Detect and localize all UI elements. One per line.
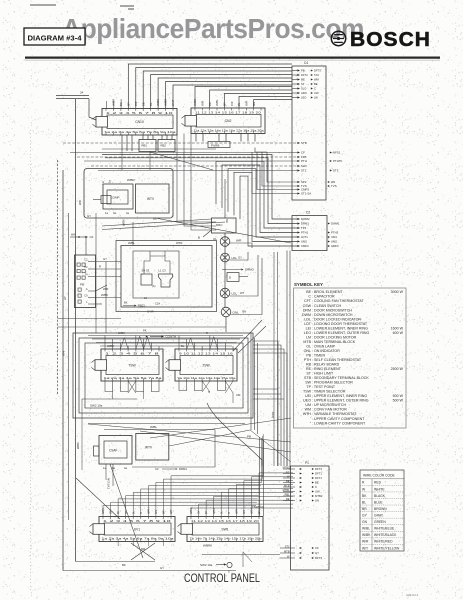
svg-text:WHITE/BLUE: WHITE/BLUE	[374, 527, 395, 531]
svg-text:CF: CF	[90, 235, 94, 239]
wire C4 lower feed 4	[252, 152, 297, 194]
svg-text:2500 W: 2500 W	[391, 367, 404, 371]
svg-text:: TEST POINT: : TEST POINT	[312, 385, 336, 389]
wire bus CN2 pin riser 3	[224, 94, 292, 109]
svg-text:W/Y: W/Y	[362, 546, 369, 550]
svg-text:GN: GN	[242, 310, 246, 314]
wire left frame vertical D	[68, 213, 70, 520]
wire TSW1 riser 5	[135, 336, 137, 350]
svg-text:600 W: 600 W	[393, 331, 404, 335]
wire diagonal D4b	[140, 431, 291, 452]
relay WTV box	[136, 184, 170, 213]
svg-text:: HIGH LIMIT: : HIGH LIMIT	[312, 372, 334, 376]
svg-text:W/BL: W/BL	[362, 527, 370, 531]
svg-text:TVS: TVS	[331, 184, 337, 188]
svg-text:11a 12a 13a 14a 15a 16a 17a 18: 11a 12a 13a 14a 15a 16a 17a 18a 19a 20a	[194, 129, 265, 133]
wire C4 feed row 3	[77, 156, 297, 158]
svg-text:CONTROL PANEL: CONTROL PANEL	[184, 573, 260, 585]
svg-text:BR: BR	[362, 507, 367, 511]
wire TSW1 riser 1	[104, 336, 106, 350]
wire diagonal TSW2 corner 2	[238, 326, 266, 353]
wire PB out WBK	[96, 297, 122, 299]
svg-text:UM: UM	[305, 403, 311, 407]
svg-text:DRM1: DRM1	[179, 467, 187, 471]
svg-text:C: C	[315, 485, 317, 489]
svg-text:11 12 13 14 15 16 17 18 19 20: 11 12 13 14 15 16 17 18 19 20	[191, 519, 259, 523]
svg-text:DFT3: DFT3	[315, 467, 322, 471]
wire bus CN2 pin riser 1	[195, 87, 292, 109]
svg-text:TSW: TSW	[303, 390, 312, 394]
svg-text:W/BK: W/BK	[156, 99, 160, 106]
svg-text:DRM: DRM	[303, 308, 311, 312]
svg-text:: ON INDICATOR: : ON INDICATOR	[312, 349, 340, 353]
svg-text:BK: BK	[119, 102, 123, 106]
wire TSW2 riser 8	[232, 346, 234, 349]
svg-text:BE: BE	[314, 82, 318, 86]
svg-text:: VARIABLE THERMOSTAT: : VARIABLE THERMOSTAT	[312, 412, 357, 416]
wire lamp LDL2 right	[230, 255, 258, 296]
svg-text:OL: OL	[306, 344, 311, 348]
svg-text:BLACK: BLACK	[374, 494, 386, 498]
svg-text:AppliancePartsPros.com: AppliancePartsPros.com	[62, 13, 364, 44]
svg-text:SW: SW	[305, 381, 311, 385]
svg-text:R: R	[228, 512, 231, 514]
svg-text:BL: BL	[362, 500, 366, 504]
wire below SW1 vertical	[242, 552, 244, 568]
wire module feed	[132, 222, 134, 246]
svg-text:ST: ST	[301, 82, 305, 86]
svg-text:: UPPER CAVITY COMPONENT: : UPPER CAVITY COMPONENT	[312, 417, 365, 421]
wire bottom horizontal 1	[76, 561, 155, 563]
svg-text:GN: GN	[155, 510, 158, 514]
svg-text:BE: BE	[286, 479, 290, 483]
wire staircase 1	[216, 161, 297, 228]
svg-text:GY: GY	[315, 551, 319, 555]
svg-text:NFS1: NFS1	[333, 151, 341, 155]
svg-text:W/R: W/R	[244, 101, 248, 106]
wire bus CN1 pin riser 2	[136, 68, 292, 109]
svg-text:PK: PK	[143, 329, 147, 333]
svg-text:: TIMER SELECTOR: : TIMER SELECTOR	[312, 390, 346, 394]
wire diagonal up-right	[150, 418, 291, 438]
svg-text:: MAIN TERMINAL BLOCK: : MAIN TERMINAL BLOCK	[312, 340, 356, 344]
wire PB right vertical	[105, 262, 107, 334]
svg-text:W/R: W/R	[147, 509, 150, 514]
svg-text:1 2 3 4 5 6 7 8 9 10: 1 2 3 4 5 6 7 8 9 10	[103, 519, 171, 523]
label C2 DRM1 arrow	[155, 467, 187, 471]
wire TSW1 riser 3	[119, 343, 121, 350]
svg-text:RB23: RB23	[138, 304, 145, 308]
svg-text:WHITE/RED: WHITE/RED	[374, 540, 393, 544]
svg-text:CF: CF	[315, 546, 319, 550]
wire CSAF enclosure right	[132, 430, 215, 468]
wire TSW2 top weave	[187, 337, 218, 350]
wire C4 feed row 2	[70, 152, 297, 154]
svg-text:W/BL: W/BL	[150, 425, 157, 429]
svg-text:CSW: CSW	[303, 304, 312, 308]
wire TSW2 riser 5	[209, 336, 211, 350]
wire bus CN2 pin riser 4	[239, 97, 292, 109]
svg-text:SLO: SLO	[301, 87, 306, 91]
svg-text:W/V: W/V	[62, 351, 66, 356]
svg-text:: COOLING FAN THERMOSTAT: : COOLING FAN THERMOSTAT	[312, 299, 365, 303]
svg-text:1a 2a 3a 4a 5a 6a 7a 8a: 1a 2a 3a 4a 5a 6a 7a 8a	[104, 376, 163, 380]
svg-text:LM: LM	[306, 335, 311, 339]
svg-text:GRAY: GRAY	[374, 514, 384, 518]
svg-text:SW1: SW1	[221, 527, 228, 531]
svg-text:GN: GN	[252, 102, 256, 106]
svg-text:CN10: CN10	[135, 120, 144, 124]
svg-text:BE: BE	[315, 481, 319, 485]
svg-text:GY: GY	[222, 102, 226, 106]
svg-text:CSAF: CSAF	[109, 449, 118, 453]
wire RB drop 2	[149, 151, 151, 170]
wire horizontal y327	[58, 326, 227, 328]
wire CN1 pin drops left	[122, 135, 132, 151]
wire lamp chain vertical	[224, 233, 226, 307]
svg-text:DIAGRAM #3-4: DIAGRAM #3-4	[28, 34, 83, 43]
wire diagonal D7	[150, 152, 213, 170]
svg-text:LDT: LDT	[304, 322, 312, 326]
svg-text:C2: C2	[155, 467, 159, 471]
wire TSW1 bottom cross diagonals	[82, 381, 159, 470]
svg-text:WM: WM	[314, 78, 320, 82]
wire C4 feed row 1	[63, 142, 297, 144]
svg-text:PURB: PURB	[211, 143, 219, 147]
svg-text:ST2: ST2	[285, 544, 290, 548]
wire SW1 feed vertical 1	[259, 437, 261, 516]
svg-text:WTV: WTV	[145, 446, 153, 450]
svg-text:WHT: WHT	[171, 99, 175, 106]
wire diagonal D2b	[155, 218, 291, 243]
svg-text:WTR: WTR	[271, 412, 275, 418]
wire bus CN1 pin riser 5	[158, 78, 292, 109]
svg-text:C/F: C/F	[134, 101, 138, 106]
svg-text:: UP MICROSWITCH: : UP MICROSWITCH	[312, 403, 346, 407]
wire under CN1 y149	[102, 148, 216, 150]
svg-text:MTB: MTB	[284, 549, 290, 553]
svg-text:BLUE: BLUE	[374, 500, 383, 504]
svg-text:1a 2a 3a 4a 5a 6a 7a 8a 9a 10a: 1a 2a 3a 4a 5a 6a 7a 8a 9a 10a	[102, 537, 175, 541]
svg-text:: CONV FAN MOTOR: : CONV FAN MOTOR	[312, 408, 347, 412]
svg-text:: RING ELEMENT: : RING ELEMENT	[312, 367, 342, 371]
wire CN2 drop vertical 2	[184, 134, 216, 227]
svg-text:RE: RE	[306, 367, 312, 371]
svg-text:GY: GY	[238, 256, 242, 260]
svg-text:W/BRK: W/BRK	[203, 544, 212, 548]
svg-text:W/BR: W/BR	[127, 178, 135, 182]
module RB2 inner outline	[133, 251, 179, 298]
svg-text:CMF3: CMF3	[331, 244, 339, 248]
wire TSW2 riser 7	[224, 343, 226, 350]
wire RB drop 1	[121, 151, 123, 170]
svg-text:DRM1: DRM1	[301, 222, 309, 226]
svg-text:WM: WM	[305, 408, 311, 412]
svg-text:BK: BK	[122, 563, 126, 567]
wire bus CN1 pin riser 1	[128, 64, 292, 109]
wire mid-to-C1 lower stub 2	[253, 393, 281, 395]
wire curve mid	[207, 403, 262, 466]
svg-text:500 W: 500 W	[393, 399, 404, 403]
wire C4 feed row 5	[91, 165, 297, 167]
svg-text:: RELAY BOARD: : RELAY BOARD	[312, 363, 340, 367]
wire mid-to-C1 3	[253, 349, 284, 466]
wire module hooks	[144, 251, 170, 274]
svg-text:L1 C3: L1 C3	[159, 269, 167, 273]
wire below SW1 horizontal	[202, 554, 280, 556]
wire CN1 pin2 stub	[113, 101, 115, 109]
wire C4 lower feed 3	[257, 152, 297, 190]
relay board RB outer box	[84, 169, 173, 219]
wire color code table	[360, 470, 404, 551]
svg-text:DRMO: DRMO	[245, 268, 255, 272]
svg-text:BE: BE	[306, 290, 311, 294]
svg-text:DFT2: DFT2	[301, 73, 308, 77]
svg-text:GY: GY	[110, 510, 113, 514]
wire SW2 arrow + node	[200, 562, 232, 573]
svg-text:(A): (A)	[152, 284, 156, 288]
wire diagonal D6	[110, 464, 143, 558]
svg-text:PTH: PTH	[304, 358, 312, 362]
wire mid-to-C1 1	[253, 341, 278, 466]
svg-text:TP3: TP3	[301, 226, 307, 230]
svg-text:7b 14b 7b 14b 13b 14b 15b 17b: 7b 14b 7b 14b 13b 14b 15b 17b 19b 20b	[190, 537, 263, 541]
svg-text:BK: BK	[205, 510, 208, 514]
svg-text:DWM1: DWM1	[331, 222, 340, 226]
svg-text:UW: UW	[314, 91, 319, 95]
scan artifact left margin dotted line	[30, 130, 32, 592]
svg-text:WTH: WTH	[303, 412, 312, 416]
svg-text:WTV: WTV	[147, 197, 155, 201]
svg-text:LDT1: LDT1	[301, 235, 308, 239]
svg-text:: LOCKING DOOR THERMOSTAT: : LOCKING DOOR THERMOSTAT	[312, 322, 368, 326]
svg-text:RE: RE	[301, 78, 305, 82]
wire staircase 4	[234, 172, 297, 241]
svg-text:500 W: 500 W	[393, 394, 404, 398]
wire TSW1 riser 2	[112, 339, 114, 349]
svg-text:WHITE/BLACK: WHITE/BLACK	[374, 533, 397, 537]
svg-text:SH3: SH3	[301, 164, 307, 168]
svg-text:1a 2a 3a 4a 5a 6a 7a 8a 9a 10a: 1a 2a 3a 4a 5a 6a 7a 8a 9a 10a	[105, 130, 177, 134]
svg-text:GY: GY	[362, 514, 368, 518]
svg-text:WHITE/YELLOW: WHITE/YELLOW	[374, 546, 400, 550]
svg-text:1a: 1a	[108, 180, 112, 183]
svg-text:CMF3: CMF3	[301, 244, 309, 248]
wire TSW2 bottom loops	[179, 381, 233, 403]
svg-text:: PROGRAM SELECTOR: : PROGRAM SELECTOR	[312, 381, 353, 385]
wire SV1 risers + fan	[103, 434, 263, 517]
svg-text:BK: BK	[117, 510, 120, 514]
svg-text:W/BL: W/BL	[215, 99, 219, 106]
svg-text:CFT: CFT	[304, 299, 312, 303]
symbol key table	[294, 282, 407, 428]
svg-text:W/BK: W/BK	[102, 507, 105, 514]
svg-text:MTB: MTB	[284, 483, 290, 487]
wire staircase 2	[222, 165, 297, 233]
svg-text:: SELF CLEAN THERMOSTAT: : SELF CLEAN THERMOSTAT	[312, 358, 362, 362]
svg-text:W/BK: W/BK	[362, 533, 371, 537]
svg-text:SV1: SV1	[134, 527, 141, 531]
svg-text:UM1: UM1	[331, 235, 337, 239]
wire TSW top bus 3	[96, 342, 236, 344]
svg-text:BOSCH: BOSCH	[350, 29, 431, 51]
wire C2-to-C1 vertical 1	[286, 251, 288, 467]
svg-text:R: R	[206, 331, 208, 335]
wire CN2 drop vertical 3	[191, 134, 216, 231]
wire CN1 pin3 stub	[120, 99, 122, 109]
svg-text:GY: GY	[126, 102, 130, 106]
svg-text:3000 W: 3000 W	[391, 290, 404, 294]
svg-text:W/R: W/R	[362, 540, 369, 544]
wire WBL vertical	[95, 213, 97, 333]
svg-text:MTB1: MTB1	[283, 488, 290, 492]
svg-text:UM: UM	[236, 393, 241, 397]
wire bottom horizontal 2	[63, 570, 236, 572]
svg-text:BL: BL	[237, 102, 241, 106]
wire left frame vertical C (dashed)	[57, 160, 59, 395]
svg-text:1 2 3 4 5 6 7 8 9 10: 1 2 3 4 5 6 7 8 9 10	[106, 111, 173, 115]
wire TSW2 riser 6	[217, 339, 219, 349]
svg-text:PB: PB	[80, 283, 84, 287]
svg-text:BL: BL	[181, 344, 185, 348]
svg-text:SW2 10a: SW2 10a	[90, 404, 103, 408]
svg-text:TP: TP	[306, 385, 311, 389]
svg-text:LEO: LEO	[301, 96, 306, 100]
svg-text:W/BR: W/BR	[164, 99, 168, 106]
svg-text:DFT3: DFT3	[314, 69, 321, 73]
svg-text:9 10 11 12 13 14 15 16: 9 10 11 12 13 14 15 16	[179, 352, 233, 356]
svg-text:ST1-SA: ST1-SA	[301, 192, 311, 196]
wire TSW top bus 2	[92, 338, 240, 340]
wire SW1 feed vertical 2	[263, 440, 265, 516]
svg-text:CN2: CN2	[225, 119, 232, 123]
connector TSW2	[166, 349, 238, 381]
svg-text:B: B	[198, 236, 200, 240]
svg-text:ARO: ARO	[301, 91, 307, 95]
wire lamp ONL right	[231, 258, 262, 315]
wire bus CN2 pin riser 5	[254, 100, 292, 109]
wire drops below CN2 + PURB label	[196, 134, 267, 153]
lamp OL	[213, 237, 230, 247]
svg-text:C2A: C2A	[155, 302, 160, 306]
switch DRM box	[198, 218, 236, 240]
svg-text:P1: P1	[305, 461, 309, 465]
svg-text:BR: BR	[163, 510, 166, 514]
wire PB out 74	[96, 276, 122, 278]
svg-text:R: R	[140, 512, 143, 514]
svg-text:LEO: LEO	[304, 331, 311, 335]
svg-text:RE: RE	[286, 497, 290, 501]
wire TSW top bus 4	[100, 345, 232, 347]
connector CN2	[182, 108, 266, 134]
wire staircase 5	[240, 176, 297, 246]
svg-text:1600 W: 1600 W	[391, 326, 404, 330]
svg-text:: LOWER ELEMENT, INNER RING: : LOWER ELEMENT, INNER RING	[312, 326, 368, 330]
svg-text:GREEN: GREEN	[374, 520, 386, 524]
svg-text:TVS (14): TVS (14)	[107, 478, 111, 489]
wire diagonal D5	[76, 478, 120, 519]
module RB2 outer enclosure	[116, 241, 217, 312]
wire diagonal TSW2 corner 1	[233, 320, 262, 351]
wire TSW2 riser 3	[193, 343, 195, 350]
svg-text:COMP: COMP	[111, 196, 120, 200]
svg-text:W/BK: W/BK	[118, 331, 125, 335]
svg-text:W/BL: W/BL	[213, 507, 216, 514]
svg-text:TA3: TA3	[314, 73, 319, 77]
wire DRM feed vertical	[224, 179, 226, 218]
wire staircase 3	[228, 169, 297, 237]
lamp ONL	[221, 307, 239, 317]
svg-text:A09-04 4: A09-04 4	[406, 593, 419, 597]
switch D + DRMO arrow	[222, 268, 255, 282]
svg-text:: OVEN LAMP: : OVEN LAMP	[312, 344, 336, 348]
svg-text:PTH3: PTH3	[331, 231, 339, 235]
svg-text:PB1: PB1	[285, 492, 290, 496]
wire SW1 risers	[191, 473, 293, 517]
wire stub top-left pair	[56, 91, 96, 121]
connector C4	[292, 61, 326, 200]
wire mid-to-C1 lower stub 3	[253, 398, 284, 400]
svg-text:GY: GY	[103, 257, 107, 261]
svg-text:LW: LW	[314, 96, 318, 100]
svg-text:GN: GN	[362, 520, 368, 524]
svg-text:MTB: MTB	[303, 340, 311, 344]
wire mid-to-C1 lower stub 1	[253, 388, 278, 390]
svg-text:ST: ST	[306, 372, 311, 376]
header rule	[25, 56, 440, 58]
wire CN2 drop vertical 1	[177, 134, 216, 223]
svg-text:UEO: UEO	[303, 399, 311, 403]
wire diagonal D1	[102, 219, 212, 226]
svg-text:UM2: UM2	[331, 240, 337, 244]
svg-text:24: 24	[80, 91, 84, 95]
wire lamp LDL1 right	[229, 252, 248, 260]
svg-text:DFT3: DFT3	[315, 556, 322, 560]
svg-text:TSW(14): TSW(14)	[252, 505, 264, 509]
svg-text:BK: BK	[124, 301, 128, 305]
wire lamp chain bottom drop	[225, 317, 227, 332]
connector SW1	[178, 517, 264, 542]
svg-text:: TIMER: : TIMER	[312, 353, 326, 357]
relay CSAF box	[94, 436, 133, 471]
svg-text:GY: GY	[160, 566, 164, 570]
wire TSW1 riser 8	[158, 346, 160, 349]
wire PB out R	[96, 268, 122, 270]
svg-text:W/Y: W/Y	[170, 509, 173, 514]
svg-text:: SECONDARY TERMINAL BLOCK: : SECONDARY TERMINAL BLOCK	[312, 376, 369, 380]
wire C4 lower feed 2	[262, 152, 297, 186]
svg-text:DWM: DWM	[302, 313, 311, 317]
svg-text:: DOWN MICROSWITCH: : DOWN MICROSWITCH	[312, 313, 353, 317]
wire C2-to-C1 vertical 2	[289, 251, 291, 471]
svg-text:W/BR: W/BR	[112, 99, 116, 106]
wire TSW1 riser 7	[150, 343, 152, 350]
wire C2-to-C1 vertical 0b	[277, 252, 279, 466]
svg-text:W/BK: W/BK	[76, 442, 80, 449]
svg-text:PTH: PTH	[301, 159, 307, 163]
wire C4 feed row 6	[98, 170, 297, 172]
wire horizontal y318	[58, 318, 122, 320]
module RB2 box	[121, 246, 212, 308]
svg-text:SYMBOL KEY: SYMBOL KEY	[294, 282, 323, 287]
svg-text:W/B: W/B	[200, 101, 204, 106]
svg-text:GY: GY	[198, 510, 201, 514]
wire C4 lower feed 1	[267, 152, 297, 182]
svg-text:: DOOR LOCKED INDICATOR: : DOOR LOCKED INDICATOR	[312, 317, 361, 321]
svg-text:W/BR: W/BR	[190, 507, 193, 514]
svg-text:ONL: ONL	[304, 349, 311, 353]
wire CN1 pin1 stub	[106, 101, 108, 109]
